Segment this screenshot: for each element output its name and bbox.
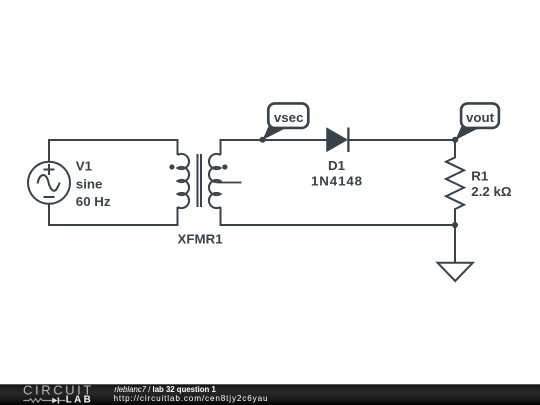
svg-text:rleblanc7 / lab 32 question 1: rleblanc7 / lab 32 question 1 — [114, 385, 216, 394]
svg-text:vout: vout — [466, 110, 495, 125]
svg-text:R1: R1 — [471, 168, 489, 183]
wire diode cathode to vout node — [349, 139, 456, 141]
transformer primary polarity dot — [169, 164, 174, 169]
svg-text:1N4148: 1N4148 — [311, 174, 363, 189]
node vsec flag tail — [263, 124, 288, 140]
svg-text:LAB: LAB — [66, 395, 93, 405]
svg-text:http://circuitlab.com/cen8tjy2: http://circuitlab.com/cen8tjy2c6yau — [114, 394, 269, 403]
svg-text:2.2 kΩ: 2.2 kΩ — [471, 184, 512, 199]
wire secondary top to diode anode — [221, 140, 328, 155]
wire top-left: V1 top to transformer primary — [49, 140, 178, 162]
wire to ground — [454, 225, 456, 263]
V1 sine symbol — [38, 175, 60, 191]
svg-text:60 Hz: 60 Hz — [76, 194, 111, 209]
node vout flag box — [461, 103, 499, 128]
svg-text:V1: V1 — [76, 159, 93, 174]
logo circuit line with resistor zigzag — [23, 399, 52, 403]
transformer XFMR1 primary coil — [178, 154, 190, 208]
wire bottom-left: V1 bottom to transformer primary — [49, 204, 178, 225]
transformer core lines — [198, 154, 202, 207]
ground symbol — [438, 263, 473, 281]
transformer XFMR1 secondary coil — [209, 154, 221, 208]
svg-text:vsec: vsec — [274, 110, 304, 125]
transformer secondary center tap stub — [217, 182, 242, 184]
voltage source V1 circle — [28, 162, 70, 204]
wire secondary bottom to resistor bottom — [221, 207, 456, 225]
V1 plus sign — [44, 164, 55, 175]
svg-text:D1: D1 — [328, 158, 346, 173]
transformer secondary polarity dot — [222, 164, 227, 169]
node vout junction dot — [452, 137, 458, 143]
resistor bottom junction dot — [452, 222, 458, 228]
node vsec junction dot — [260, 137, 266, 143]
V1 minus sign — [44, 196, 55, 198]
node vout flag tail — [455, 124, 480, 140]
resistor R1 zigzag — [446, 140, 464, 225]
logo diode symbol — [52, 398, 57, 404]
svg-text:XFMR1: XFMR1 — [178, 232, 224, 247]
diode D1 cathode bar — [347, 128, 349, 153]
diode D1 triangle — [327, 129, 347, 152]
node vsec flag box — [268, 103, 308, 128]
svg-text:sine: sine — [76, 176, 103, 191]
